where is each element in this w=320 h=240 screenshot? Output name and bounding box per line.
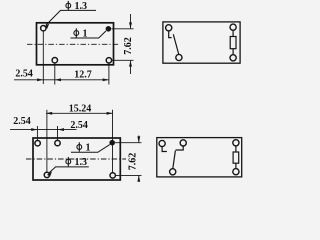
hole A1 (phi 1.3)	[41, 26, 46, 31]
label phi1.3 B	[66, 157, 71, 166]
switch D contact 2	[176, 146, 184, 150]
centerline A	[27, 43, 119, 45]
switch D blade	[173, 151, 176, 169]
switch C fixed contact	[169, 31, 172, 37]
svg-text:1: 1	[86, 143, 91, 154]
ext lines A verticals	[42, 32, 44, 85]
schematic D outline	[157, 138, 242, 177]
pin D5	[233, 169, 239, 175]
footprint A outline	[37, 23, 114, 65]
pin D2	[180, 140, 186, 146]
ext lines B horizontals for 7.62	[115, 142, 142, 144]
footprint B outline	[33, 138, 120, 180]
switch D contact 1	[162, 147, 167, 152]
ext lines A horizontals for 7.62	[112, 28, 134, 30]
hole A4 bottom-right	[106, 58, 111, 63]
pad A2 filled (phi 1)	[106, 26, 112, 32]
svg-text:7.62: 7.62	[127, 153, 138, 171]
dim 2.54 line B	[10, 129, 77, 131]
pin C1	[166, 25, 172, 31]
pin D1	[159, 140, 165, 146]
svg-text:2.54: 2.54	[13, 116, 31, 127]
svg-text:7.62: 7.62	[123, 37, 134, 55]
label phi1.3 A	[66, 1, 71, 10]
svg-text:12.7: 12.7	[74, 70, 92, 81]
pin D3	[170, 169, 176, 175]
coil C wires	[232, 31, 234, 37]
pin C4	[230, 55, 236, 61]
pin C3	[230, 24, 236, 30]
hole A3 bottom-left	[52, 58, 57, 63]
hole B2 top	[55, 140, 60, 145]
hole B4 bottom-left (phi 1.3)	[44, 172, 49, 177]
svg-text:1: 1	[83, 29, 88, 40]
dim 7.62 B vertical	[138, 136, 140, 143]
leader phi1 A	[71, 31, 107, 38]
coil C body	[230, 37, 236, 49]
dim 15.24 line	[46, 112, 113, 114]
hole B1 top	[35, 141, 40, 146]
svg-text:2.54: 2.54	[15, 69, 33, 80]
centerline B	[26, 158, 126, 160]
leader phi1.3 A	[46, 10, 96, 25]
coil D wires	[235, 146, 237, 152]
leader phi1 B	[71, 145, 110, 153]
pin D4	[233, 140, 239, 146]
hole B5 bottom-right	[110, 173, 115, 178]
ext lines B verticals	[46, 110, 48, 172]
label phi1 A	[74, 28, 79, 37]
dim 7.62 A vertical	[130, 14, 132, 28]
label phi1 B	[77, 142, 82, 151]
svg-text:2.54: 2.54	[70, 120, 88, 131]
leader phi1.3 B	[49, 167, 89, 173]
schematic C outline	[163, 22, 240, 63]
svg-text:1.3: 1.3	[75, 157, 88, 168]
pad B3 filled (phi 1)	[109, 140, 115, 146]
svg-text:1.3: 1.3	[75, 1, 88, 12]
coil D body	[233, 152, 239, 163]
pin C2	[176, 54, 182, 60]
dim line A bottom	[14, 79, 109, 81]
switch C blade	[173, 34, 178, 54]
svg-text:15.24: 15.24	[69, 104, 92, 115]
